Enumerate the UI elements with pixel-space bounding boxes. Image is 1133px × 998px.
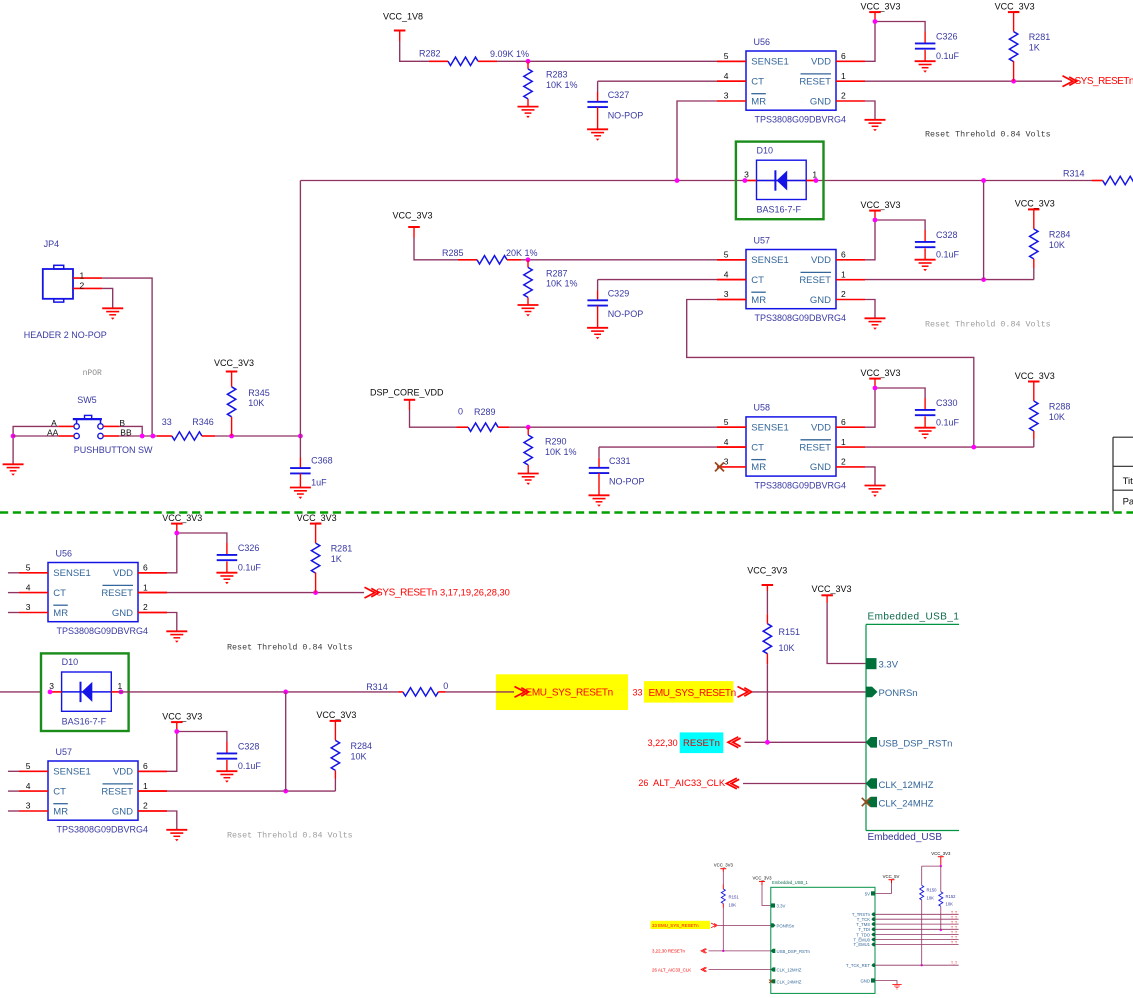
svg-text:R287: R287 [546,268,568,278]
svg-text:5: 5 [724,51,729,61]
svg-text:20K 1%: 20K 1% [506,248,538,258]
svg-text:C327: C327 [608,90,630,100]
svg-text:RESET: RESET [101,786,133,797]
svg-text:VCC_3V3: VCC_3V3 [214,358,254,368]
svg-text:1uF: 1uF [311,478,327,488]
svg-text:BAS16-7-F: BAS16-7-F [62,716,107,726]
svg-text:HEADER 2 NO-POP: HEADER 2 NO-POP [24,330,107,340]
svg-text:2: 2 [79,280,84,290]
svg-text:R152: R152 [946,894,957,899]
svg-text:6: 6 [841,250,846,260]
svg-text:R281: R281 [1029,32,1051,42]
svg-text:R284: R284 [351,741,373,751]
svg-text:10K 1%: 10K 1% [546,80,578,90]
svg-text:CT: CT [53,786,66,797]
svg-text:3.3V: 3.3V [879,659,899,670]
svg-text:1: 1 [841,437,846,447]
svg-text:CT: CT [53,588,66,599]
svg-text:Reset Threhold 0.84 Volts: Reset Threhold 0.84 Volts [925,320,1051,330]
svg-text:5: 5 [724,417,729,427]
svg-text:0.1uF: 0.1uF [238,563,262,573]
svg-text:4: 4 [724,269,729,279]
svg-text:C329: C329 [608,289,630,299]
svg-text:10K 1%: 10K 1% [545,447,577,457]
svg-text:GND: GND [112,806,133,817]
svg-text:CLK_24MHZ: CLK_24MHZ [879,799,934,810]
svg-text:C326: C326 [936,32,958,42]
svg-text:Tit: Tit [1123,476,1133,487]
svg-text:TPS3808G09DBVRG4: TPS3808G09DBVRG4 [57,825,149,835]
svg-text:3,22,30: 3,22,30 [648,738,678,748]
svg-text:VCC_3V3: VCC_3V3 [1015,199,1055,209]
svg-text:5: 5 [26,563,31,573]
svg-text:U56: U56 [56,548,73,558]
svg-text:SYS_RESETn: SYS_RESETn [1075,76,1133,87]
svg-text:ALT_AIC33_CLK: ALT_AIC33_CLK [653,778,726,789]
svg-text:EMU_SYS_RESETn: EMU_SYS_RESETn [526,687,613,698]
svg-text:Reset Threhold 0.84 Volts: Reset Threhold 0.84 Volts [925,130,1051,140]
svg-text:JP4: JP4 [44,239,60,249]
svg-text:DSP_CORE_VDD: DSP_CORE_VDD [370,388,444,398]
svg-text:RESET: RESET [799,442,831,453]
svg-text:SYS_RESETn: SYS_RESETn [376,588,437,599]
svg-text:PONRSn: PONRSn [777,924,795,929]
svg-text:PUSHBUTTON SW: PUSHBUTTON SW [74,445,153,455]
svg-text:GND: GND [810,295,831,306]
svg-text:VCC_3V3: VCC_3V3 [297,513,337,523]
svg-text:Embedded_USB: Embedded_USB [868,832,943,843]
svg-text:0.1uF: 0.1uF [936,51,960,61]
svg-text:Pa: Pa [1123,497,1133,508]
svg-text:10K: 10K [779,643,795,653]
svg-text:R288: R288 [1049,402,1071,412]
svg-text:CLK_12MHZ: CLK_12MHZ [879,780,934,791]
svg-text:R151: R151 [779,627,801,637]
svg-text:0: 0 [458,407,463,417]
svg-text:10K: 10K [946,902,954,907]
svg-text:1: 1 [812,169,817,179]
svg-text:MR: MR [751,295,766,306]
svg-text:R314: R314 [1063,169,1085,179]
svg-text:C330: C330 [936,398,958,408]
svg-text:T_T: T_T [951,941,957,945]
svg-text:1K: 1K [1029,43,1040,53]
svg-text:U57: U57 [754,235,771,245]
svg-text:Reset Threhold 0.84 Volts: Reset Threhold 0.84 Volts [227,831,353,841]
svg-text:1K: 1K [331,554,342,564]
svg-text:U58: U58 [754,403,771,413]
svg-text:5V: 5V [865,891,870,896]
svg-text:3: 3 [724,289,729,299]
svg-text:1: 1 [143,781,148,791]
svg-text:3: 3 [724,91,729,101]
svg-text:VCC_3V3: VCC_3V3 [931,851,951,856]
svg-text:R150: R150 [927,888,938,893]
svg-text:VCC_3V3: VCC_3V3 [162,711,202,721]
svg-text:TPS3808G09DBVRG4: TPS3808G09DBVRG4 [57,626,149,636]
svg-text:10K 1%: 10K 1% [546,279,578,289]
svg-text:VCC_3V3: VCC_3V3 [714,863,734,868]
svg-text:U56: U56 [754,37,771,47]
svg-text:26: 26 [638,778,648,788]
svg-text:T_T: T_T [951,936,957,940]
svg-text:R285: R285 [442,248,464,258]
svg-text:3,22,30 RESETn: 3,22,30 RESETn [652,949,686,954]
svg-text:SENSE1: SENSE1 [751,423,789,434]
svg-text:9.09K 1%: 9.09K 1% [490,49,529,59]
svg-text:33 EMU_SYS_RESETn: 33 EMU_SYS_RESETn [652,923,699,928]
svg-text:0.1uF: 0.1uF [936,418,960,428]
svg-text:T_T: T_T [951,931,957,935]
svg-text:Embedded_USB_1: Embedded_USB_1 [868,611,960,622]
svg-text:10K: 10K [248,398,264,408]
svg-text:NO-POP: NO-POP [608,111,644,121]
svg-text:D10: D10 [62,657,79,667]
svg-text:C328: C328 [936,230,958,240]
svg-text:10K: 10K [927,895,935,900]
svg-text:26 ALT_AIC33_CLK: 26 ALT_AIC33_CLK [652,967,691,972]
svg-text:0.1uF: 0.1uF [238,761,262,771]
svg-text:SENSE1: SENSE1 [751,57,789,68]
svg-text:SENSE1: SENSE1 [53,767,91,778]
svg-text:MR: MR [53,806,68,817]
svg-text:RESET: RESET [101,588,133,599]
svg-text:C326: C326 [238,543,260,553]
svg-text:T_T: T_T [951,920,957,924]
svg-text:1: 1 [841,269,846,279]
svg-text:R290: R290 [545,437,567,447]
svg-text:C328: C328 [238,742,260,752]
svg-text:RESET: RESET [799,275,831,286]
svg-text:VCC_3V3: VCC_3V3 [162,513,202,523]
svg-text:1: 1 [841,71,846,81]
svg-text:2: 2 [143,602,148,612]
svg-text:VDD: VDD [113,568,133,579]
svg-text:VDD: VDD [811,423,831,434]
svg-text:3: 3 [724,457,729,467]
svg-text:RESETn: RESETn [683,738,720,749]
svg-text:VCC_3V3: VCC_3V3 [392,211,432,221]
svg-text:EMU_SYS_RESETn: EMU_SYS_RESETn [649,688,736,699]
svg-text:T_T: T_T [951,911,957,915]
svg-text:USB_DSP_RSTn: USB_DSP_RSTn [879,739,953,750]
svg-text:VCC_3V3: VCC_3V3 [860,1,900,11]
svg-text:R281: R281 [331,544,353,554]
svg-text:VCC_3V3: VCC_3V3 [316,710,356,720]
svg-text:PONRSn: PONRSn [879,688,918,699]
svg-text:GND: GND [860,979,870,984]
svg-text:TPS3808G09DBVRG4: TPS3808G09DBVRG4 [755,115,847,125]
svg-text:4: 4 [26,781,31,791]
svg-text:R289: R289 [474,407,496,417]
svg-text:1: 1 [143,582,148,592]
svg-text:TPS3808G09DBVRG4: TPS3808G09DBVRG4 [755,481,847,491]
svg-text:SW5: SW5 [77,395,97,405]
svg-text:T_EMU1: T_EMU1 [853,942,870,947]
svg-text:CT: CT [751,77,764,88]
svg-text:SENSE1: SENSE1 [751,255,789,266]
svg-text:10K: 10K [729,902,737,907]
svg-text:VCC_3V3: VCC_3V3 [995,1,1035,11]
svg-text:5: 5 [26,761,31,771]
svg-text:R345: R345 [248,388,270,398]
svg-text:VCC_3V3: VCC_3V3 [811,584,851,594]
svg-text:6: 6 [841,51,846,61]
svg-text:nPOR: nPOR [83,369,102,378]
svg-text:TPS3808G09DBVRG4: TPS3808G09DBVRG4 [755,313,847,323]
svg-text:C368: C368 [311,455,333,465]
svg-text:VCC_3V3: VCC_3V3 [860,200,900,210]
svg-text:C331: C331 [609,456,631,466]
svg-text:0: 0 [443,681,448,691]
svg-text:3: 3 [49,681,54,691]
svg-text:T_T: T_T [951,926,957,930]
svg-text:CT: CT [751,442,764,453]
svg-text:MR: MR [751,462,766,473]
svg-text:GND: GND [810,96,831,107]
svg-text:VCC_5V: VCC_5V [883,874,900,879]
svg-text:3: 3 [26,801,31,811]
svg-text:VDD: VDD [811,255,831,266]
svg-text:D10: D10 [757,145,774,155]
svg-text:VDD: VDD [811,57,831,68]
svg-text:6: 6 [143,761,148,771]
svg-text:T_TCK_RET: T_TCK_RET [846,963,870,968]
svg-text:VCC_3V3: VCC_3V3 [1015,371,1055,381]
svg-text:R346: R346 [192,417,214,427]
svg-text:10K: 10K [1049,240,1065,250]
svg-text:6: 6 [841,417,846,427]
svg-text:4: 4 [26,582,31,592]
svg-text:4: 4 [724,71,729,81]
svg-text:R314: R314 [366,682,388,692]
svg-text:4: 4 [724,437,729,447]
svg-text:U57: U57 [56,747,73,757]
svg-text:3.3V: 3.3V [777,903,786,908]
svg-text:5: 5 [724,250,729,260]
svg-text:Embedded_USB_1: Embedded_USB_1 [772,880,809,885]
svg-text:VDD: VDD [113,767,133,778]
svg-text:Reset Threhold 0.84 Volts: Reset Threhold 0.84 Volts [227,643,353,653]
svg-text:2: 2 [143,801,148,811]
svg-text:NO-POP: NO-POP [608,309,644,319]
svg-text:6: 6 [143,563,148,573]
svg-text:GND: GND [810,462,831,473]
svg-text:3: 3 [26,602,31,612]
svg-text:3,17,19,26,28,30: 3,17,19,26,28,30 [440,588,510,598]
svg-text:1: 1 [79,270,84,280]
svg-text:GND: GND [112,608,133,619]
svg-text:RESET: RESET [799,77,831,88]
svg-text:33: 33 [633,688,643,698]
svg-text:CLK_24MHZ: CLK_24MHZ [777,979,802,984]
svg-text:MR: MR [751,96,766,107]
svg-text:2: 2 [841,289,846,299]
svg-text:1: 1 [118,681,123,691]
svg-text:2: 2 [841,457,846,467]
svg-text:T_T: T_T [951,915,957,919]
svg-text:T_T: T_T [951,961,957,965]
svg-text:CT: CT [751,275,764,286]
svg-text:R282: R282 [419,49,441,59]
svg-text:10K: 10K [351,751,367,761]
svg-text:BAS16-7-F: BAS16-7-F [757,205,802,215]
svg-text:3: 3 [744,170,749,180]
svg-text:VCC_3V3: VCC_3V3 [747,566,787,576]
svg-text:USB_DSP_RSTn: USB_DSP_RSTn [777,949,811,954]
svg-text:2: 2 [841,91,846,101]
svg-text:MR: MR [53,608,68,619]
svg-text:R283: R283 [546,70,568,80]
svg-text:CLK_12MHZ: CLK_12MHZ [777,968,802,973]
svg-text:R284: R284 [1049,229,1071,239]
svg-text:VCC_3V3: VCC_3V3 [860,368,900,378]
svg-text:SENSE1: SENSE1 [53,568,91,579]
svg-text:VCC_1V8: VCC_1V8 [383,11,423,21]
svg-text:0.1uF: 0.1uF [936,250,960,260]
svg-text:R151: R151 [729,895,740,900]
svg-text:10K: 10K [1049,412,1065,422]
svg-text:33: 33 [162,417,172,427]
svg-text:NO-POP: NO-POP [609,477,645,487]
svg-text:VCC_3V3: VCC_3V3 [752,875,772,880]
